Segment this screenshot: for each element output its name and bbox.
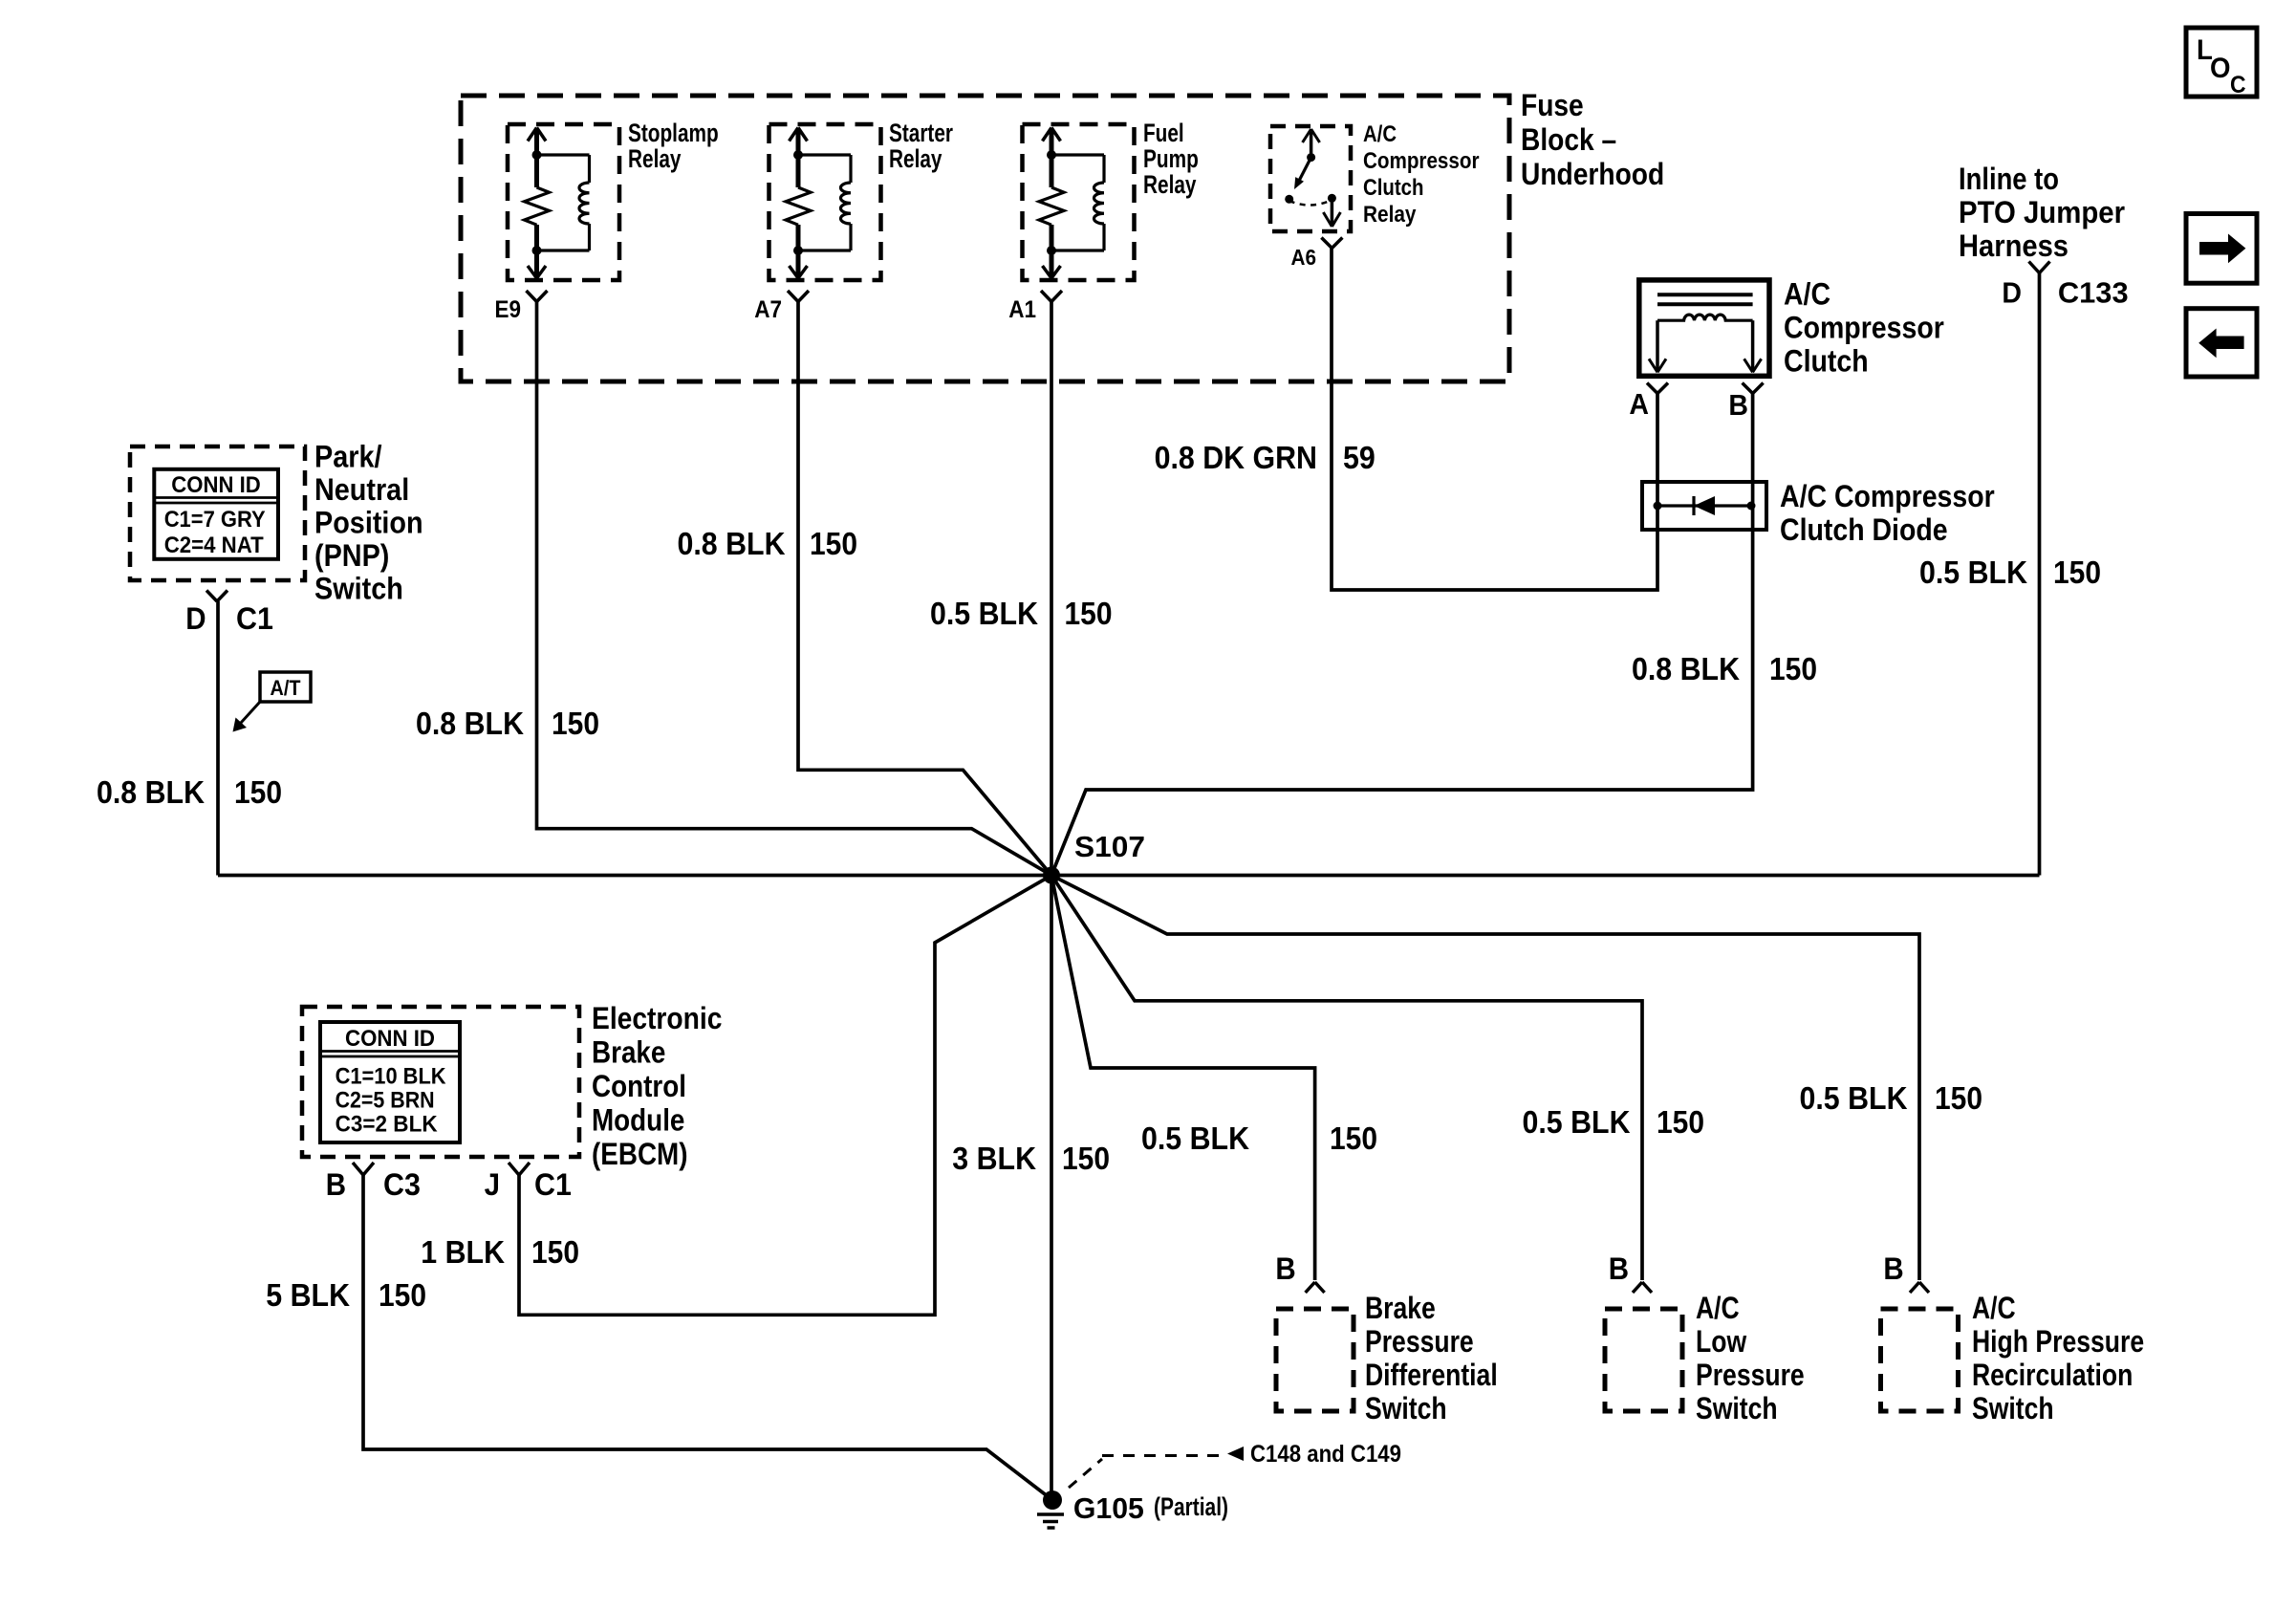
svg-text:Compressor: Compressor	[1363, 148, 1480, 174]
svg-text:C2=4 NAT: C2=4 NAT	[164, 533, 264, 558]
svg-text:Pump: Pump	[1143, 144, 1199, 173]
svg-text:B: B	[1883, 1251, 1903, 1286]
svg-text:A6: A6	[1291, 245, 1317, 270]
svg-text:E9: E9	[495, 296, 522, 323]
svg-text:A/C: A/C	[1972, 1291, 2016, 1325]
svg-text:150: 150	[234, 774, 282, 810]
svg-text:Switch: Switch	[314, 572, 403, 606]
svg-text:150: 150	[1065, 596, 1113, 631]
svg-text:Neutral: Neutral	[314, 472, 409, 507]
svg-text:0.8 BLK: 0.8 BLK	[97, 774, 205, 810]
svg-text:Relay: Relay	[1363, 202, 1417, 228]
svg-text:150: 150	[1330, 1120, 1377, 1156]
svg-text:C3=2 BLK: C3=2 BLK	[336, 1112, 439, 1138]
svg-text:G105: G105	[1073, 1491, 1144, 1525]
svg-text:150: 150	[531, 1234, 579, 1270]
svg-text:(Partial): (Partial)	[1154, 1492, 1228, 1521]
svg-text:Relay: Relay	[628, 144, 682, 173]
svg-text:A/C: A/C	[1363, 121, 1397, 147]
svg-text:Switch: Switch	[1365, 1391, 1447, 1425]
svg-text:Recirculation: Recirculation	[1972, 1358, 2133, 1392]
svg-text:(PNP): (PNP)	[314, 538, 389, 573]
svg-text:C133: C133	[2058, 275, 2129, 309]
svg-text:(EBCM): (EBCM)	[592, 1137, 688, 1171]
svg-text:Harness: Harness	[1959, 228, 2069, 263]
svg-text:S107: S107	[1074, 830, 1145, 863]
svg-text:Control: Control	[592, 1069, 686, 1103]
svg-text:Module: Module	[592, 1103, 684, 1138]
svg-text:150: 150	[379, 1277, 426, 1313]
svg-text:C1: C1	[236, 601, 273, 636]
svg-text:0.5 BLK: 0.5 BLK	[1919, 555, 2027, 590]
svg-text:Stoplamp: Stoplamp	[628, 119, 719, 147]
svg-text:0.8 BLK: 0.8 BLK	[678, 526, 786, 561]
svg-text:Park/: Park/	[314, 440, 382, 474]
svg-text:1 BLK: 1 BLK	[421, 1234, 505, 1270]
svg-text:Fuse: Fuse	[1521, 88, 1584, 122]
svg-text:High Pressure: High Pressure	[1972, 1324, 2144, 1359]
svg-text:150: 150	[1062, 1141, 1110, 1176]
svg-text:150: 150	[1935, 1080, 1982, 1116]
svg-text:Low: Low	[1696, 1324, 1746, 1359]
svg-text:5 BLK: 5 BLK	[266, 1277, 350, 1313]
svg-text:Differential: Differential	[1365, 1358, 1498, 1392]
svg-text:C3: C3	[383, 1167, 421, 1202]
svg-text:150: 150	[552, 706, 599, 741]
svg-text:Electronic: Electronic	[592, 1001, 722, 1035]
svg-text:A/C Compressor: A/C Compressor	[1780, 479, 1995, 513]
svg-text:C1: C1	[534, 1167, 572, 1202]
svg-text:A/T: A/T	[271, 676, 301, 700]
svg-text:B: B	[326, 1167, 346, 1202]
svg-text:Clutch: Clutch	[1363, 175, 1424, 201]
svg-text:3 BLK: 3 BLK	[952, 1141, 1036, 1176]
svg-text:0.5 BLK: 0.5 BLK	[1800, 1080, 1908, 1116]
svg-text:Compressor: Compressor	[1784, 311, 1944, 345]
svg-text:C1=7 GRY: C1=7 GRY	[164, 507, 266, 533]
svg-text:Starter: Starter	[889, 119, 953, 147]
svg-text:Underhood: Underhood	[1521, 157, 1664, 191]
svg-text:0.8 BLK: 0.8 BLK	[1632, 651, 1740, 686]
svg-text:C148 and C149: C148 and C149	[1250, 1441, 1401, 1468]
svg-text:Inline to: Inline to	[1959, 162, 2059, 196]
svg-text:0.8 BLK: 0.8 BLK	[416, 706, 524, 741]
svg-text:O: O	[2210, 53, 2231, 84]
svg-text:J: J	[485, 1167, 500, 1202]
svg-text:Brake: Brake	[1365, 1291, 1436, 1325]
svg-text:B: B	[1609, 1251, 1629, 1286]
svg-text:0.5 BLK: 0.5 BLK	[1523, 1104, 1631, 1140]
svg-text:Pressure: Pressure	[1696, 1358, 1805, 1392]
svg-text:A7: A7	[754, 296, 782, 323]
svg-text:A1: A1	[1008, 296, 1036, 323]
svg-text:150: 150	[810, 526, 857, 561]
svg-text:Position: Position	[314, 506, 423, 540]
svg-text:Relay: Relay	[1143, 170, 1197, 199]
svg-text:150: 150	[2053, 555, 2101, 590]
svg-text:0.5 BLK: 0.5 BLK	[930, 596, 1038, 631]
svg-text:59: 59	[1343, 440, 1375, 475]
svg-text:B: B	[1728, 388, 1748, 422]
svg-text:CONN ID: CONN ID	[345, 1026, 435, 1052]
svg-text:C2=5 BRN: C2=5 BRN	[336, 1088, 435, 1114]
svg-text:A/C: A/C	[1696, 1291, 1740, 1325]
svg-text:150: 150	[1657, 1104, 1704, 1140]
svg-text:Pressure: Pressure	[1365, 1324, 1474, 1359]
svg-text:C1=10 BLK: C1=10 BLK	[336, 1064, 447, 1090]
svg-text:Block –: Block –	[1521, 122, 1616, 157]
svg-text:A: A	[1629, 387, 1649, 421]
svg-text:0.5 BLK: 0.5 BLK	[1141, 1120, 1249, 1156]
svg-text:PTO Jumper: PTO Jumper	[1959, 195, 2125, 229]
svg-text:0.8 DK GRN: 0.8 DK GRN	[1155, 440, 1317, 475]
svg-text:A/C: A/C	[1784, 277, 1830, 312]
svg-text:C: C	[2230, 72, 2246, 98]
svg-text:Clutch Diode: Clutch Diode	[1780, 512, 1948, 547]
svg-text:150: 150	[1769, 651, 1817, 686]
svg-text:D: D	[185, 601, 206, 636]
svg-text:B: B	[1275, 1251, 1295, 1286]
svg-text:Relay: Relay	[889, 144, 942, 173]
svg-text:CONN ID: CONN ID	[171, 472, 260, 498]
svg-text:Switch: Switch	[1696, 1391, 1778, 1425]
svg-text:Fuel: Fuel	[1143, 119, 1184, 147]
svg-text:D: D	[2002, 275, 2022, 309]
svg-text:Clutch: Clutch	[1784, 344, 1869, 379]
svg-text:Switch: Switch	[1972, 1391, 2054, 1425]
svg-text:Brake: Brake	[592, 1035, 665, 1070]
